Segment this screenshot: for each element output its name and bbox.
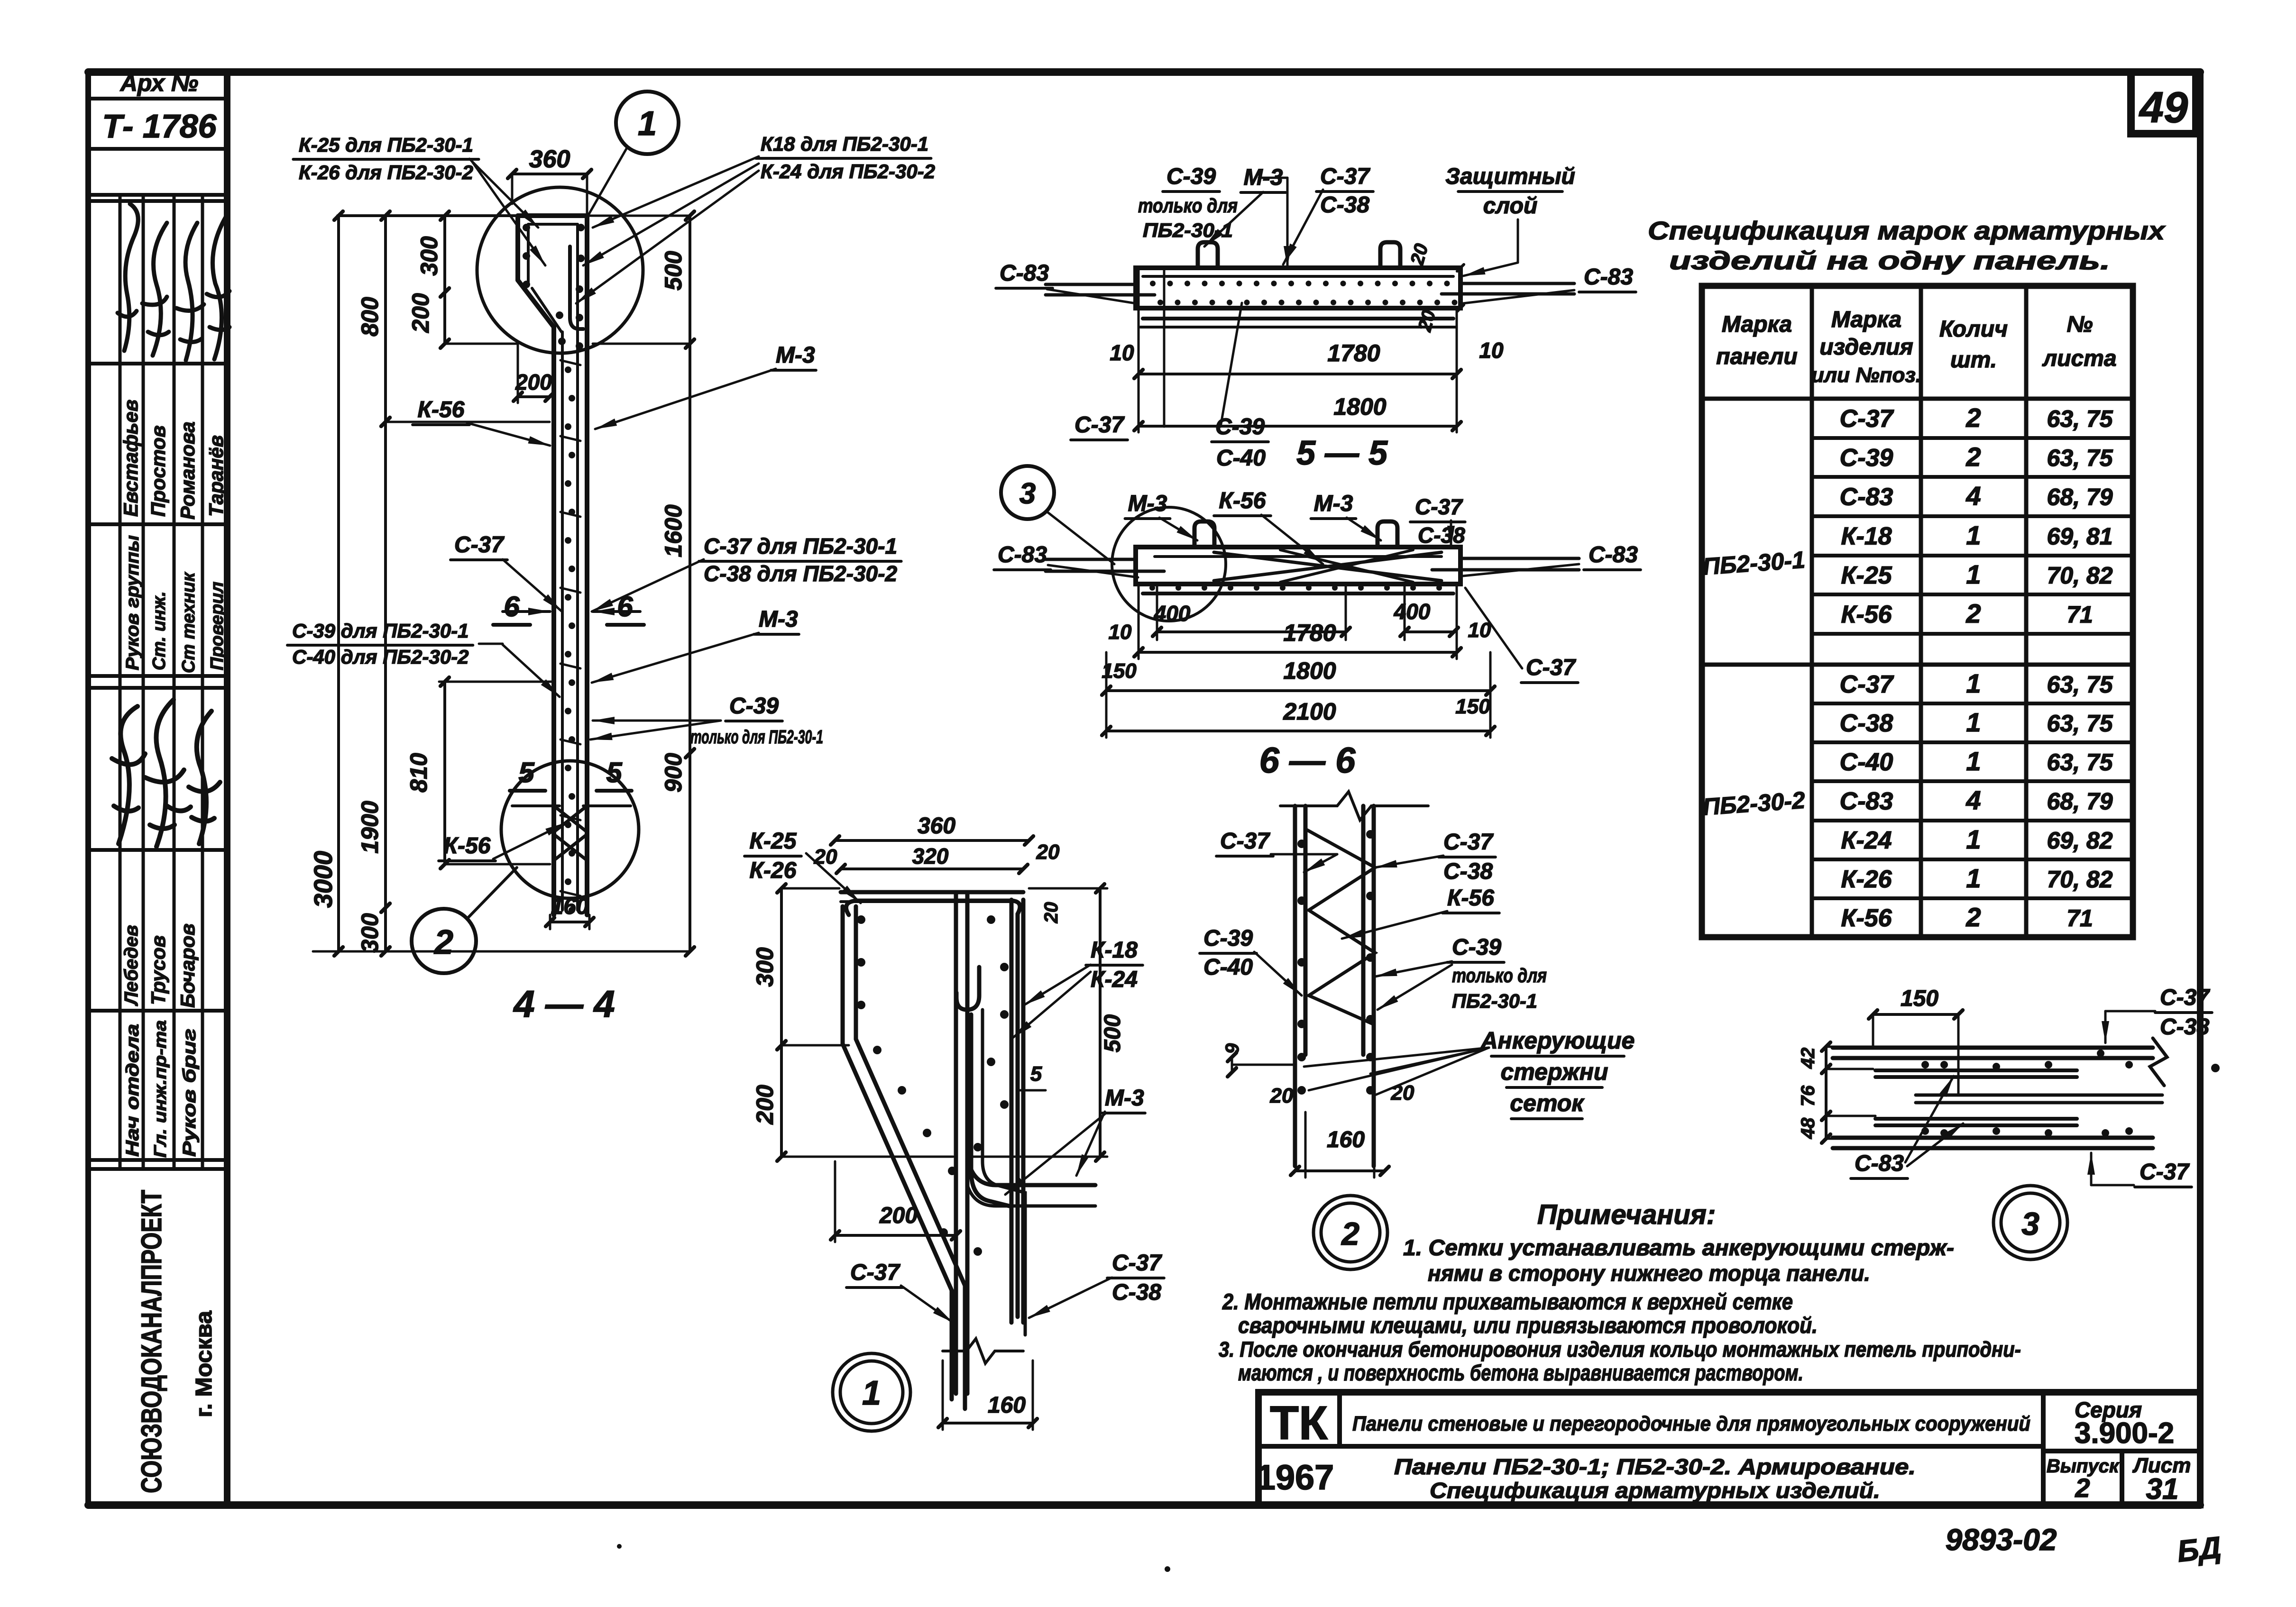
svg-text:М-3: М-3 bbox=[1128, 491, 1167, 516]
svg-text:К-56: К-56 bbox=[1219, 488, 1266, 513]
svg-text:маются , и поверхность бето: маются , и поверхность бетона выравнивае… bbox=[1238, 1360, 1803, 1385]
svg-text:1: 1 bbox=[1966, 824, 1981, 854]
svg-text:только для: только для bbox=[1138, 194, 1238, 217]
svg-text:С-38: С-38 bbox=[1443, 859, 1493, 884]
svg-text:48: 48 bbox=[1798, 1117, 1818, 1139]
svg-text:БД: БД bbox=[2176, 1530, 2223, 1568]
svg-text:10: 10 bbox=[1468, 619, 1491, 642]
svg-text:С-40: С-40 bbox=[1203, 955, 1253, 980]
svg-text:изделий на одну панель.: изделий на одну панель. bbox=[1669, 247, 2110, 275]
svg-text:4: 4 bbox=[1965, 785, 1981, 815]
svg-text:3. После окончания бетонировон: 3. После окончания бетонировония изделия… bbox=[1219, 1337, 2021, 1361]
svg-text:Гл. инж.пр-та: Гл. инж.пр-та bbox=[150, 1020, 170, 1158]
svg-text:только для: только для bbox=[1452, 964, 1547, 986]
svg-text:800: 800 bbox=[357, 297, 383, 337]
svg-text:Ст техник: Ст техник bbox=[179, 572, 199, 673]
svg-text:Анкерующие: Анкерующие bbox=[1480, 1027, 1635, 1054]
svg-text:9893-02: 9893-02 bbox=[1946, 1523, 2057, 1557]
svg-text:63, 75: 63, 75 bbox=[2047, 671, 2113, 698]
svg-text:3.900-2: 3.900-2 bbox=[2075, 1417, 2174, 1450]
svg-text:нями в сторону нижнего торца: нями в сторону нижнего торца панели. bbox=[1428, 1260, 1870, 1286]
svg-text:2: 2 bbox=[1965, 403, 1981, 433]
svg-text:200: 200 bbox=[879, 1203, 918, 1228]
svg-text:С-38: С-38 bbox=[2160, 1014, 2209, 1040]
svg-text:М-3: М-3 bbox=[1105, 1086, 1144, 1111]
svg-text:2: 2 bbox=[1965, 599, 1981, 629]
svg-text:С-37: С-37 bbox=[850, 1260, 900, 1285]
svg-text:г. Москва: г. Москва bbox=[192, 1311, 217, 1417]
svg-text:Бочаров: Бочаров bbox=[176, 923, 199, 1008]
svg-text:С-38 для ПБ2-30-2: С-38 для ПБ2-30-2 bbox=[704, 561, 897, 586]
svg-text:шт.: шт. bbox=[1950, 347, 1997, 373]
svg-text:К-24: К-24 bbox=[1841, 827, 1892, 854]
svg-text:2100: 2100 bbox=[1283, 698, 1336, 725]
svg-text:2: 2 bbox=[1965, 902, 1981, 932]
svg-text:Руков бриг: Руков бриг bbox=[180, 1029, 200, 1157]
svg-text:2: 2 bbox=[1341, 1216, 1359, 1252]
svg-text:С-83: С-83 bbox=[1000, 261, 1049, 286]
svg-text:68, 79: 68, 79 bbox=[2047, 788, 2112, 815]
svg-text:С-37: С-37 bbox=[1415, 494, 1463, 519]
svg-text:20: 20 bbox=[1041, 902, 1062, 924]
svg-text:71: 71 bbox=[2066, 602, 2093, 628]
svg-text:Марка: Марка bbox=[1831, 307, 1901, 332]
svg-text:С-37: С-37 bbox=[1320, 164, 1370, 189]
svg-text:С-40: С-40 bbox=[1216, 446, 1266, 471]
svg-text:С-39 для ПБ2-30-1: С-39 для ПБ2-30-1 bbox=[292, 620, 469, 642]
svg-text:М-3: М-3 bbox=[1244, 165, 1283, 190]
svg-text:400: 400 bbox=[1154, 601, 1191, 626]
svg-text:76: 76 bbox=[1798, 1085, 1818, 1106]
svg-text:Евстафьев: Евстафьев bbox=[119, 400, 142, 517]
svg-text:№: № bbox=[2066, 312, 2093, 337]
svg-text:1: 1 bbox=[1966, 559, 1981, 589]
svg-text:С-38: С-38 bbox=[1418, 523, 1465, 548]
svg-text:71: 71 bbox=[2066, 905, 2093, 931]
svg-text:Проверил: Проверил bbox=[207, 582, 227, 670]
svg-text:С-40: С-40 bbox=[1840, 749, 1893, 776]
svg-text:слой: слой bbox=[1483, 193, 1538, 219]
svg-text:5: 5 bbox=[1030, 1062, 1042, 1086]
svg-text:ТК: ТК bbox=[1270, 1397, 1328, 1450]
svg-text:360: 360 bbox=[529, 146, 570, 173]
svg-text:С-38: С-38 bbox=[1112, 1280, 1161, 1305]
svg-text:70, 82: 70, 82 bbox=[2047, 562, 2112, 589]
svg-text:сеток: сеток bbox=[1510, 1090, 1585, 1116]
svg-text:300: 300 bbox=[752, 947, 778, 987]
svg-text:С-37: С-37 bbox=[1840, 405, 1894, 433]
svg-text:К-24: К-24 bbox=[1091, 967, 1138, 992]
svg-text:С-83: С-83 bbox=[998, 542, 1047, 567]
svg-text:Ст. инж.: Ст. инж. bbox=[149, 591, 169, 670]
svg-text:Колич: Колич bbox=[1939, 317, 2008, 342]
svg-text:Спецификация арматурных изде: Спецификация арматурных изделий. bbox=[1430, 1478, 1880, 1503]
svg-text:листа: листа bbox=[2042, 346, 2116, 371]
svg-text:1: 1 bbox=[1966, 668, 1981, 698]
svg-text:20: 20 bbox=[1391, 1081, 1414, 1105]
svg-text:С-38: С-38 bbox=[1840, 710, 1893, 737]
svg-text:49: 49 bbox=[2139, 83, 2188, 132]
svg-text:1: 1 bbox=[1966, 707, 1981, 737]
svg-text:1800: 1800 bbox=[1283, 657, 1336, 684]
svg-text:К-56: К-56 bbox=[1447, 886, 1494, 911]
svg-text:Таранёв: Таранёв bbox=[205, 435, 227, 517]
svg-text:3000: 3000 bbox=[309, 851, 338, 908]
svg-text:31: 31 bbox=[2146, 1473, 2179, 1506]
svg-text:2. Монтажные петли прихватыв: 2. Монтажные петли прихватываются к верх… bbox=[1222, 1289, 1793, 1314]
svg-text:К-56: К-56 bbox=[1841, 904, 1892, 932]
svg-text:Нач отдела: Нач отдела bbox=[123, 1024, 143, 1157]
svg-text:10: 10 bbox=[1110, 340, 1134, 365]
svg-text:160: 160 bbox=[551, 894, 588, 919]
svg-text:С-37: С-37 bbox=[1840, 671, 1894, 698]
svg-text:С-39: С-39 bbox=[1166, 164, 1216, 189]
svg-text:10: 10 bbox=[1479, 338, 1504, 363]
svg-text:42: 42 bbox=[1798, 1048, 1818, 1069]
svg-text:СОЮЗВОДОКАНАЛПРОЕКТ: СОЮЗВОДОКАНАЛПРОЕКТ bbox=[136, 1190, 167, 1493]
svg-text:С-40 для ПБ2-30-2: С-40 для ПБ2-30-2 bbox=[292, 646, 469, 668]
svg-text:3: 3 bbox=[1019, 477, 1036, 510]
svg-text:1780: 1780 bbox=[1283, 620, 1336, 646]
svg-text:63, 75: 63, 75 bbox=[2047, 749, 2113, 776]
svg-text:С-83: С-83 bbox=[1840, 788, 1893, 815]
svg-text:2: 2 bbox=[433, 923, 453, 961]
svg-text:63, 75: 63, 75 bbox=[2047, 406, 2113, 432]
svg-text:Руков группы: Руков группы bbox=[123, 535, 143, 670]
svg-text:4: 4 bbox=[1965, 481, 1981, 511]
svg-text:К-26 для ПБ2-30-2: К-26 для ПБ2-30-2 bbox=[299, 161, 473, 183]
svg-text:5 — 5: 5 — 5 bbox=[1296, 434, 1388, 472]
svg-text:Защитный: Защитный bbox=[1445, 164, 1575, 189]
svg-text:900: 900 bbox=[660, 753, 687, 793]
svg-text:С-37: С-37 bbox=[1443, 830, 1494, 855]
svg-text:300: 300 bbox=[416, 236, 442, 276]
svg-text:1. Сетки устанавливать анке: 1. Сетки устанавливать анкерующими стерж… bbox=[1403, 1235, 1954, 1260]
svg-text:Спецификация марок арматурны: Спецификация марок арматурных bbox=[1648, 217, 2166, 245]
svg-text:К-56: К-56 bbox=[444, 833, 491, 858]
svg-text:С-39: С-39 bbox=[729, 694, 779, 719]
svg-text:1780: 1780 bbox=[1327, 340, 1380, 366]
svg-text:1800: 1800 bbox=[1333, 393, 1386, 420]
svg-text:Примечания:: Примечания: bbox=[1537, 1199, 1716, 1230]
svg-text:400: 400 bbox=[1394, 599, 1431, 624]
svg-text:1: 1 bbox=[638, 105, 657, 143]
svg-text:С-39: С-39 bbox=[1840, 444, 1893, 472]
svg-text:К-56: К-56 bbox=[1841, 601, 1892, 629]
svg-text:С-39: С-39 bbox=[1203, 926, 1253, 951]
svg-text:200: 200 bbox=[407, 293, 434, 333]
svg-text:63, 75: 63, 75 bbox=[2047, 710, 2113, 737]
svg-text:С-37: С-37 bbox=[1526, 655, 1576, 680]
svg-text:200: 200 bbox=[515, 370, 552, 394]
svg-text:160: 160 bbox=[988, 1393, 1026, 1418]
svg-text:1: 1 bbox=[862, 1374, 881, 1412]
svg-text:68, 79: 68, 79 bbox=[2047, 484, 2112, 511]
svg-text:К-18: К-18 bbox=[1091, 938, 1138, 963]
svg-text:С-37: С-37 bbox=[1075, 412, 1125, 438]
svg-text:2: 2 bbox=[1965, 442, 1981, 472]
svg-text:Т- 1786: Т- 1786 bbox=[102, 108, 217, 145]
svg-text:63, 75: 63, 75 bbox=[2047, 445, 2113, 471]
svg-text:810: 810 bbox=[405, 753, 432, 793]
svg-text:20: 20 bbox=[1036, 840, 1060, 864]
svg-text:М-3: М-3 bbox=[1314, 491, 1353, 516]
svg-text:4 — 4: 4 — 4 bbox=[513, 983, 615, 1025]
svg-text:2: 2 bbox=[2075, 1473, 2090, 1503]
svg-text:С-37: С-37 bbox=[1112, 1251, 1162, 1276]
svg-text:1600: 1600 bbox=[660, 504, 687, 557]
svg-text:20: 20 bbox=[1270, 1084, 1294, 1107]
svg-text:К-24 для ПБ2-30-2: К-24 для ПБ2-30-2 bbox=[761, 160, 935, 183]
svg-text:9: 9 bbox=[1222, 1043, 1243, 1054]
svg-text:С-37: С-37 bbox=[1220, 829, 1270, 854]
svg-text:ПБ2-30-1: ПБ2-30-1 bbox=[1143, 219, 1233, 241]
svg-text:3: 3 bbox=[2021, 1206, 2039, 1242]
svg-text:С-83: С-83 bbox=[1589, 542, 1638, 567]
svg-text:6: 6 bbox=[504, 591, 520, 622]
svg-text:Панели стеновые и перегородочн: Панели стеновые и перегородочные для пря… bbox=[1352, 1412, 2030, 1435]
svg-text:С-37: С-37 bbox=[2140, 1160, 2190, 1185]
svg-text:360: 360 bbox=[918, 813, 955, 839]
svg-text:1: 1 bbox=[1966, 746, 1981, 776]
svg-text:С-38: С-38 bbox=[1320, 192, 1369, 218]
svg-text:Романова: Романова bbox=[176, 421, 199, 520]
svg-text:Панели ПБ2-30-1; ПБ2-30-2.: Панели ПБ2-30-1; ПБ2-30-2. Армирование. bbox=[1394, 1454, 1916, 1479]
svg-text:К-26: К-26 bbox=[750, 858, 797, 883]
svg-text:6: 6 bbox=[617, 591, 633, 622]
svg-text:69, 81: 69, 81 bbox=[2047, 523, 2112, 550]
svg-text:С-37: С-37 bbox=[2160, 985, 2210, 1010]
svg-text:1: 1 bbox=[1966, 863, 1981, 893]
svg-text:300: 300 bbox=[357, 913, 383, 953]
svg-text:Простов: Простов bbox=[147, 425, 169, 517]
svg-text:К-25: К-25 bbox=[750, 829, 797, 854]
svg-text:С-83: С-83 bbox=[1584, 265, 1633, 290]
svg-text:500: 500 bbox=[660, 251, 687, 291]
svg-text:панели: панели bbox=[1716, 344, 1797, 369]
svg-text:1900: 1900 bbox=[357, 801, 383, 853]
svg-text:Марка: Марка bbox=[1722, 312, 1792, 337]
svg-text:Трусов: Трусов bbox=[147, 935, 169, 1005]
svg-text:500: 500 bbox=[1100, 1014, 1125, 1052]
svg-text:Лебедев: Лебедев bbox=[121, 925, 142, 1006]
svg-text:С-83: С-83 bbox=[1855, 1151, 1904, 1176]
svg-text:1967: 1967 bbox=[1256, 1458, 1334, 1497]
svg-text:С-37 для ПБ2-30-1: С-37 для ПБ2-30-1 bbox=[704, 534, 897, 558]
svg-text:К18 для ПБ2-30-1: К18 для ПБ2-30-1 bbox=[761, 133, 928, 155]
svg-text:М-3: М-3 bbox=[776, 343, 815, 368]
svg-text:К-26: К-26 bbox=[1841, 866, 1892, 893]
svg-text:М-3: М-3 bbox=[759, 607, 798, 632]
svg-text:150: 150 bbox=[1455, 695, 1490, 718]
svg-text:С-83: С-83 bbox=[1840, 484, 1893, 511]
svg-text:ПБ2-30-1: ПБ2-30-1 bbox=[1452, 990, 1537, 1012]
svg-text:К-56: К-56 bbox=[418, 397, 465, 422]
svg-text:С-37: С-37 bbox=[454, 532, 505, 557]
svg-text:150: 150 bbox=[1901, 986, 1938, 1011]
svg-text:6 — 6: 6 — 6 bbox=[1259, 740, 1356, 781]
svg-text:стержни: стержни bbox=[1501, 1059, 1608, 1085]
svg-text:Арх №: Арх № bbox=[119, 70, 198, 96]
svg-text:С-39: С-39 bbox=[1452, 935, 1501, 960]
svg-text:70, 82: 70, 82 bbox=[2047, 866, 2112, 893]
svg-text:200: 200 bbox=[752, 1085, 778, 1125]
svg-text:160: 160 bbox=[1327, 1127, 1365, 1152]
svg-text:или №поз.: или №поз. bbox=[1811, 364, 1921, 387]
svg-text:К-25: К-25 bbox=[1841, 562, 1892, 589]
svg-text:1: 1 bbox=[1966, 520, 1981, 550]
svg-text:изделия: изделия bbox=[1819, 335, 1913, 360]
svg-text:69, 82: 69, 82 bbox=[2047, 827, 2112, 854]
svg-text:К-25 для ПБ2-30-1: К-25 для ПБ2-30-1 bbox=[299, 134, 473, 156]
svg-text:сварочными клещами, или привя: сварочными клещами, или привязываются пр… bbox=[1238, 1313, 1818, 1338]
svg-text:К-18: К-18 bbox=[1841, 523, 1892, 550]
svg-text:20: 20 bbox=[814, 845, 837, 868]
svg-text:только для ПБ2-30-1: только для ПБ2-30-1 bbox=[690, 727, 823, 748]
svg-text:320: 320 bbox=[912, 844, 949, 868]
svg-text:10: 10 bbox=[1109, 621, 1132, 644]
